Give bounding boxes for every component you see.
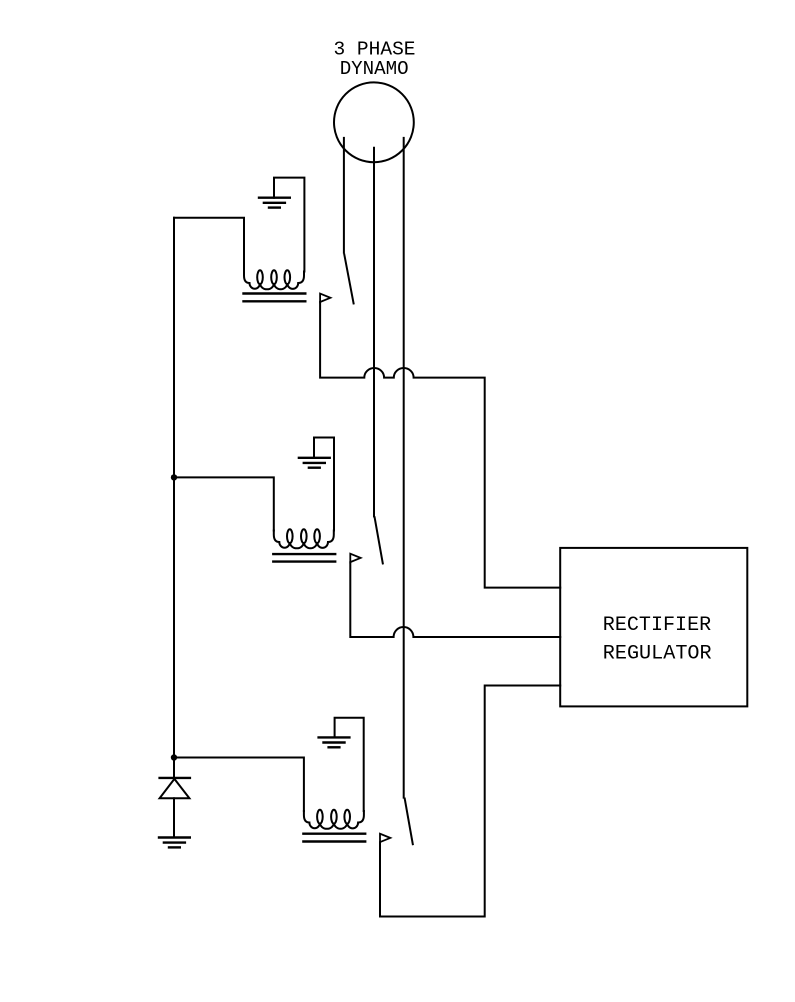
wire ground stem K2: [314, 438, 334, 531]
switch blade S2: [375, 517, 383, 563]
switch contact flag S1: [320, 294, 330, 302]
relay coil K2: [274, 529, 334, 548]
switch contact flag S3: [380, 834, 390, 842]
relay coil K3: [304, 810, 364, 829]
relay coil K1: [244, 270, 304, 289]
switch blade S3: [405, 799, 413, 845]
wire phase-1 from dynamo: [343, 138, 345, 253]
diode D1 cathode bar: [160, 777, 190, 779]
switch contact flag S2: [350, 554, 360, 562]
wire ground stem K1: [274, 178, 304, 272]
svg-text:RECTIFIER: RECTIFIER: [603, 614, 711, 637]
wire ground stem K3: [335, 718, 364, 811]
wire diode to ground: [173, 798, 175, 837]
wire left feed K2: [174, 477, 274, 530]
ground (relay coil K1): [259, 198, 290, 208]
ground (relay coil K2): [299, 458, 330, 468]
wire left feed K3: [174, 758, 304, 812]
core lines K2: [273, 553, 335, 555]
wire A: S1 to rectifier: [320, 302, 560, 588]
wire B: S2 to rectifier: [350, 562, 560, 637]
ground (relay coil K3): [319, 737, 350, 747]
ground (below diode D1): [159, 838, 190, 848]
wire left bus (vertical): [173, 218, 175, 778]
core lines K1: [244, 292, 306, 294]
node J2 (junction dot): [171, 754, 177, 760]
node J1 (junction dot): [171, 474, 177, 480]
wire C: S3 to rectifier: [380, 686, 560, 917]
diode D1 triangle: [160, 779, 190, 798]
svg-text:REGULATOR: REGULATOR: [603, 642, 712, 665]
wire phase-3 from dynamo: [403, 138, 405, 798]
svg-text:DYNAMO: DYNAMO: [340, 58, 409, 80]
switch blade S1: [344, 255, 353, 304]
wire left feed K1: [174, 218, 244, 272]
wire phase-2 from dynamo: [373, 148, 375, 517]
rectifier regulator box U1: [560, 548, 747, 707]
dynamo G1 (3-phase generator circle): [334, 82, 414, 162]
core lines K3: [303, 833, 365, 835]
